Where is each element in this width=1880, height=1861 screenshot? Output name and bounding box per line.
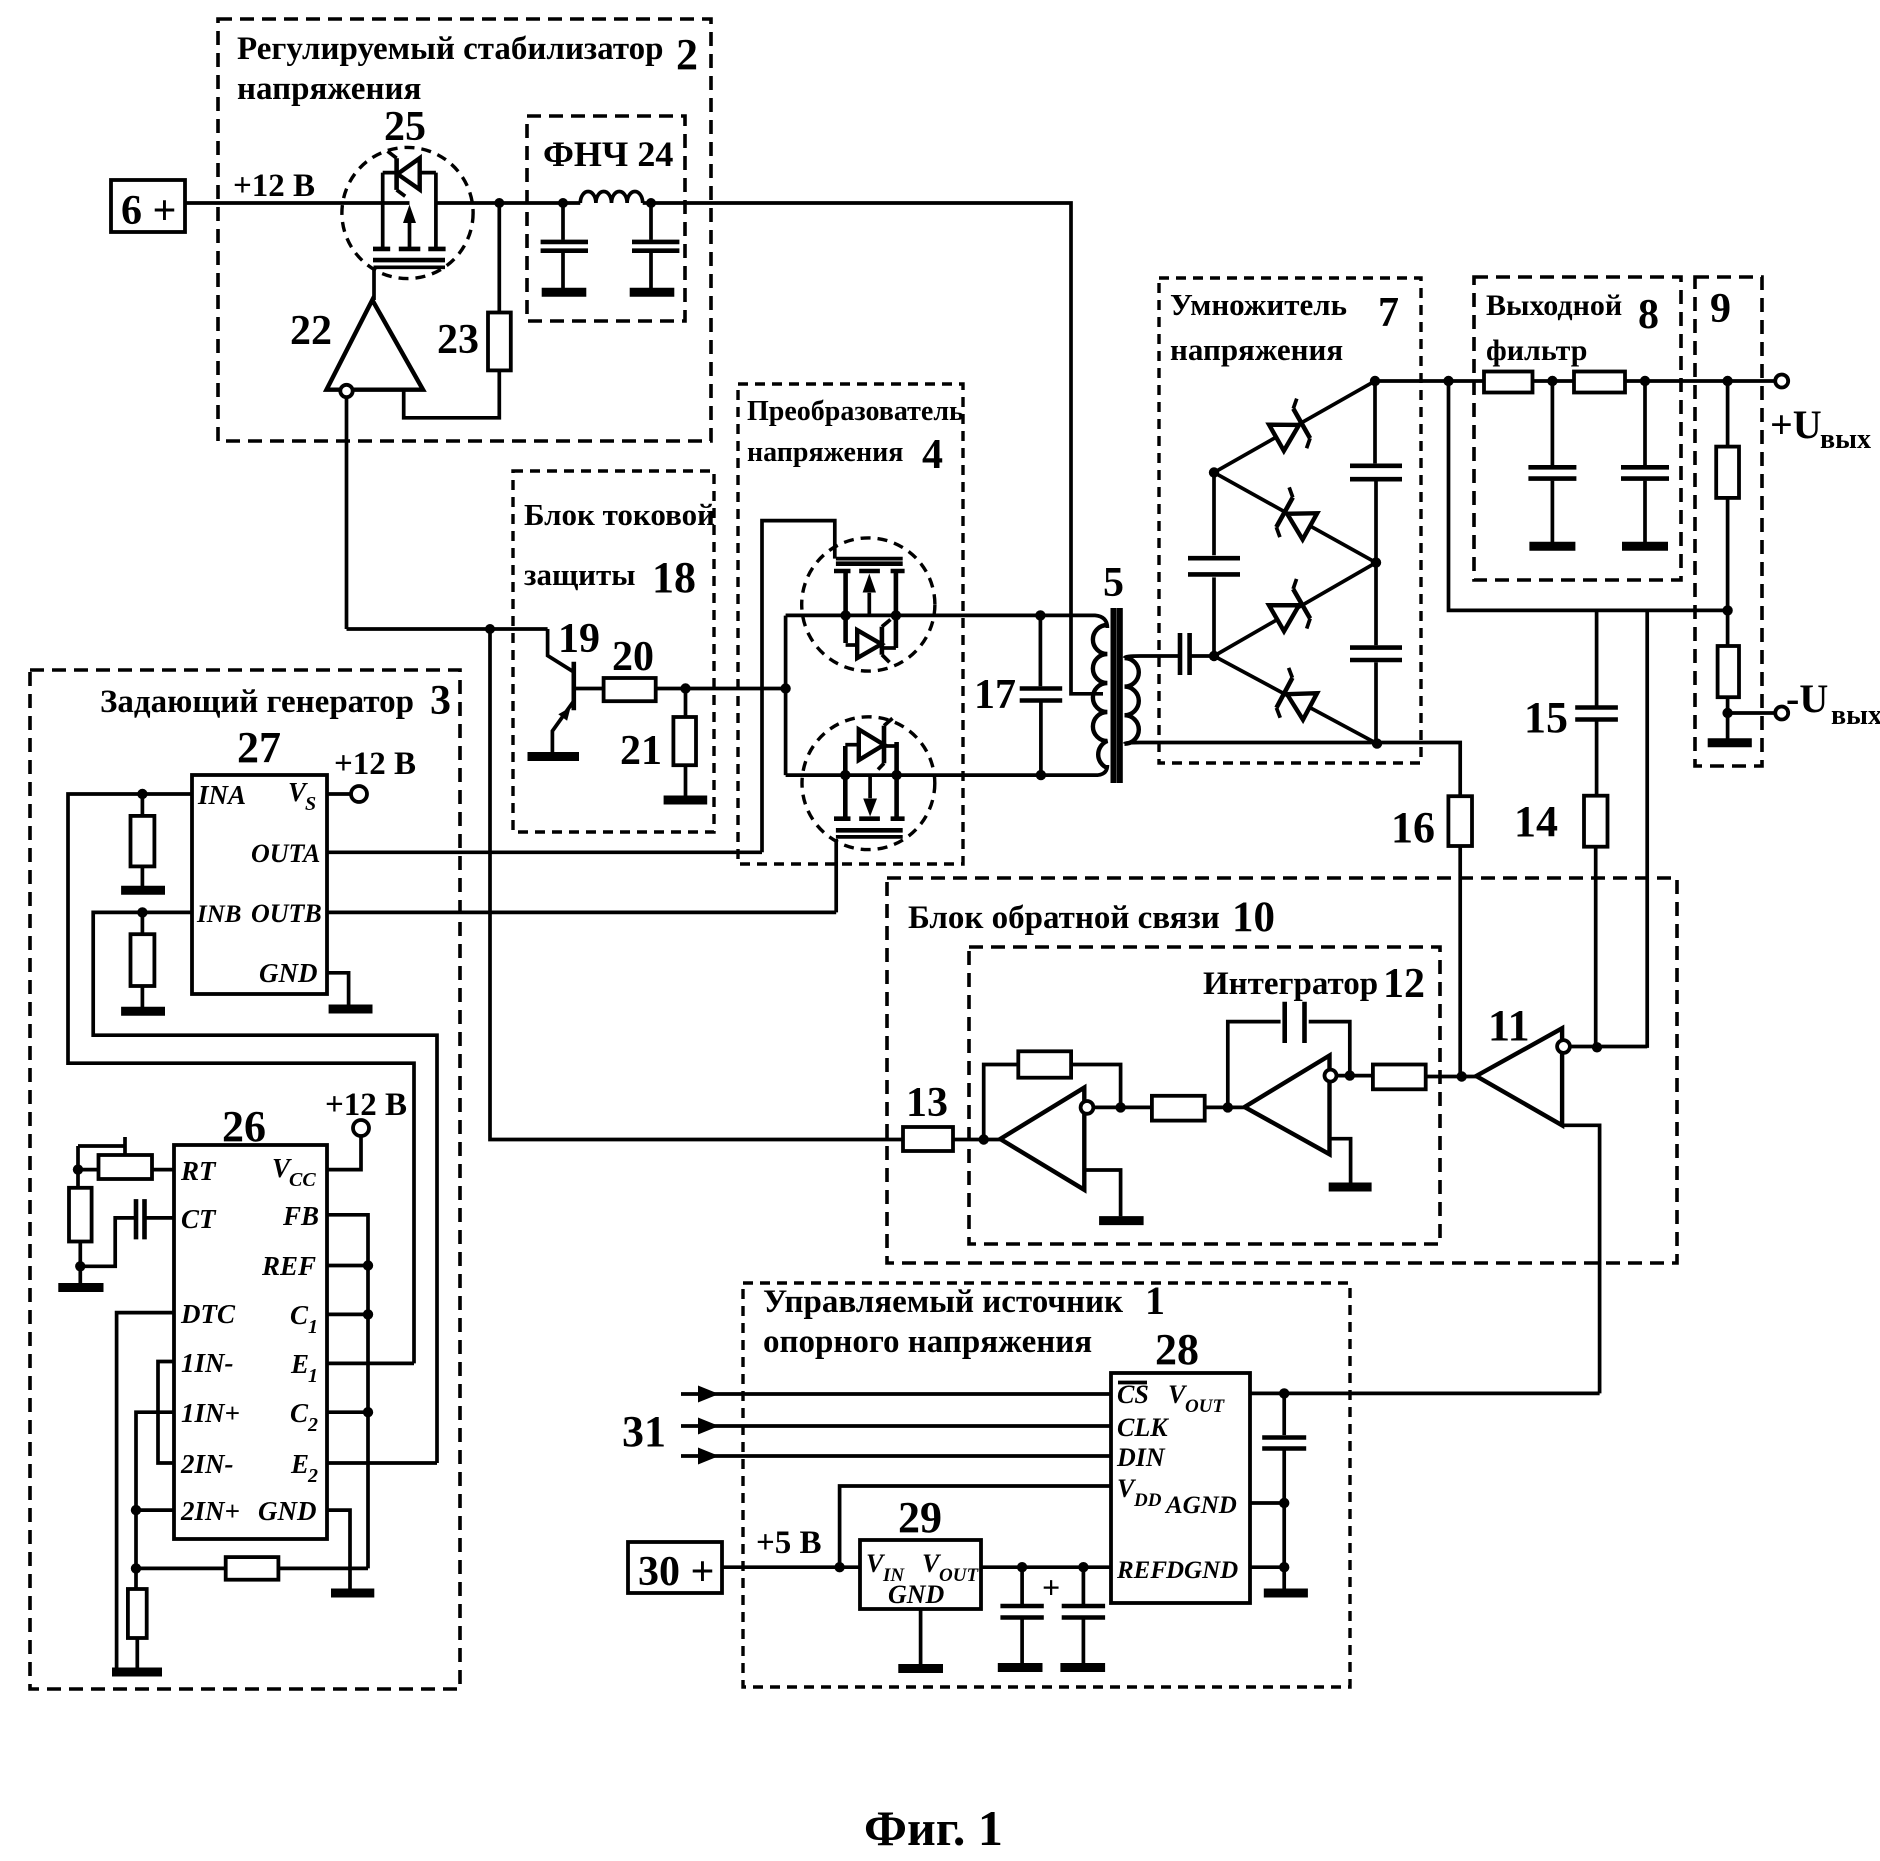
capacitor polarized at REF (998, 1567, 1060, 1667)
svg-text:22: 22 (290, 308, 332, 354)
svg-text:Интегратор: Интегратор (1203, 966, 1378, 1002)
input box 6 (111, 180, 185, 234)
IC 26 (PWM controller) (174, 1102, 327, 1539)
wire node B up to cap (1212, 577, 1216, 656)
block 9: output divider (1695, 277, 1762, 766)
wire DGND (1250, 1565, 1284, 1569)
wire op-amp 11 output right branch up (1645, 610, 1649, 1048)
op-amp 22 (290, 300, 499, 418)
svg-text:Фиг. 1: Фиг. 1 (864, 1800, 1003, 1856)
resistor R8a (1484, 372, 1533, 393)
svg-text:31: 31 (622, 1407, 666, 1456)
transistor 25 (p-MOSFET in dashed circle) (342, 104, 473, 300)
capacitor at VOUT28 (1262, 1393, 1308, 1593)
wire op-amp22 inverting input down to node (345, 397, 349, 629)
svg-text:27: 27 (237, 723, 281, 772)
svg-text:28: 28 (1155, 1325, 1199, 1374)
capacitor 17 (974, 615, 1062, 775)
wire long vertical from node down to feedback resistor 13 (490, 629, 903, 1140)
wire GND of IC26 (327, 1510, 350, 1589)
resistor 21 (620, 689, 707, 801)
svg-text:7: 7 (1378, 290, 1399, 336)
capacitor at REF (1060, 1567, 1105, 1667)
block 2: Регулируемый стабилизатор напряжения (218, 19, 711, 441)
wire E1 to INA net (327, 1362, 414, 1366)
resistor 14 (1514, 796, 1608, 1048)
svg-text:DTC: DTC (180, 1299, 236, 1329)
wire secondary top to series cap (1140, 654, 1178, 658)
svg-text:фильтр: фильтр (1486, 334, 1587, 367)
wire OUTA to upper MOSFET gate (327, 850, 762, 854)
resistor 13 (903, 1080, 984, 1151)
svg-text:14: 14 (1514, 797, 1558, 846)
svg-text:напряжения: напряжения (747, 437, 903, 468)
svg-text:C: C (290, 1398, 309, 1428)
capacitor C8b (1621, 381, 1669, 546)
svg-text:INB: INB (196, 901, 241, 928)
svg-text:5: 5 (1103, 560, 1124, 606)
block 4: Преобразователь напряжения (738, 384, 964, 864)
resistor between op13 and op12 (1152, 1096, 1205, 1121)
wire VDD branch (840, 1486, 1111, 1567)
svg-text:30 +: 30 + (638, 1549, 714, 1595)
wire OUTB to lower MOSFET gate (327, 911, 836, 915)
wire output +U and terminal (1695, 375, 1871, 456)
svg-text:+12 В: +12 В (325, 1087, 407, 1123)
wire secondary bottom to resistor 16 (1140, 743, 1460, 797)
svg-text:GND: GND (259, 958, 318, 988)
svg-text:+12 В: +12 В (233, 168, 315, 204)
svg-text:защиты: защиты (524, 557, 635, 592)
resistor R9b (1718, 646, 1739, 697)
svg-text:2: 2 (676, 30, 698, 79)
resistor horizontal at bottom of block 3 (136, 1557, 368, 1580)
svg-text:CC: CC (289, 1169, 316, 1191)
capacitor C8a (1528, 381, 1576, 546)
svg-text:6 +: 6 + (121, 188, 176, 234)
svg-text:DGND: DGND (1165, 1557, 1238, 1584)
block 3: Задающий генератор (30, 670, 460, 1689)
svg-text:1: 1 (308, 1365, 318, 1387)
wire between R8a R8b and caps (1533, 379, 1575, 383)
ground IC29 (919, 1609, 923, 1664)
resistor feedback of 13 (984, 1051, 1121, 1139)
svg-text:2IN-: 2IN- (180, 1449, 234, 1479)
svg-text:18: 18 (652, 553, 696, 602)
svg-text:16: 16 (1391, 803, 1435, 852)
capacitor at CT (80, 1199, 174, 1266)
resistor at INA (121, 794, 165, 890)
block 12: Интегратор (969, 947, 1440, 1244)
op-amp 12 (1245, 1056, 1373, 1188)
svg-text:INA: INA (197, 780, 246, 810)
svg-text:11: 11 (1488, 1001, 1530, 1050)
svg-text:FB: FB (282, 1201, 319, 1231)
svg-text:Управляемый источник: Управляемый источник (763, 1284, 1123, 1320)
svg-text:REF: REF (1116, 1557, 1167, 1584)
block 1: Управляемый источник опорного напряжения (743, 1278, 1350, 1687)
block 18: Блок токовой защиты (513, 471, 715, 832)
svg-text:2: 2 (307, 1465, 318, 1487)
svg-text:AGND: AGND (1164, 1492, 1237, 1519)
IC 28 (DAC) (1111, 1325, 1250, 1603)
resistor below RT pot (58, 1170, 103, 1288)
low-pass filter 24: capacitor C24a (541, 203, 588, 292)
capacitor C24b (630, 203, 680, 292)
diode D2 (node A to middle node) (1214, 473, 1376, 563)
svg-text:29: 29 (898, 1493, 942, 1542)
transistor VT upper (n-MOSFET in dashed circle) (762, 521, 935, 853)
block 10: Блок обратной связи (887, 878, 1677, 1263)
svg-text:CT: CT (181, 1204, 217, 1234)
svg-text:8: 8 (1638, 292, 1659, 338)
wire +5V from box 30 to IC29 (722, 1565, 860, 1569)
svg-text:DD: DD (1133, 1490, 1162, 1511)
integrator capacitor loop (1228, 1002, 1350, 1108)
transformer 5 (1093, 560, 1140, 783)
svg-text:19: 19 (558, 616, 600, 662)
resistor at INB (121, 912, 165, 1011)
resistor 23 (437, 203, 511, 370)
svg-text:+12 В: +12 В (334, 746, 416, 782)
wire E2 to INB net (327, 1461, 437, 1465)
svg-text:9: 9 (1710, 286, 1731, 332)
capacitor series (secondary to node B) (1180, 633, 1214, 675)
svg-text:RT: RT (180, 1156, 217, 1186)
wire VOUT29 to REF28 (981, 1565, 1111, 1569)
resistor 16 (1391, 796, 1472, 1076)
wire +12V rail from box 6 to MOSFET 25 (185, 201, 383, 205)
wire -U terminal (1728, 676, 1880, 731)
svg-text:C: C (290, 1300, 309, 1330)
svg-text:1: 1 (1145, 1278, 1165, 1323)
transistor VT lower (n-MOSFET in dashed circle) (802, 717, 935, 913)
svg-text:Регулируемый стабилизатор: Регулируемый стабилизатор (237, 31, 663, 67)
svg-text:1IN-: 1IN- (181, 1348, 234, 1378)
capacitor multiplier left (1188, 558, 1240, 574)
svg-text:Блок обратной связи: Блок обратной связи (908, 900, 1220, 936)
wire FB REF C1 C2 chain (327, 1215, 368, 1569)
svg-text:вых: вых (1831, 700, 1880, 731)
ground stub op13 (1084, 1170, 1120, 1216)
multiplier right column with caps (1350, 376, 1402, 749)
svg-text:2: 2 (307, 1414, 318, 1436)
svg-text:4: 4 (922, 432, 943, 478)
svg-text:Умножитель: Умножитель (1170, 287, 1347, 322)
svg-text:ФНЧ 24: ФНЧ 24 (543, 134, 673, 174)
potentiometer at RT (73, 1137, 174, 1179)
svg-text:OUTA: OUTA (251, 839, 320, 868)
svg-text:GND: GND (258, 1496, 317, 1526)
svg-text:+5 В: +5 В (756, 1525, 822, 1561)
svg-text:21: 21 (620, 728, 662, 774)
svg-text:напряжения: напряжения (1170, 332, 1343, 367)
diode D3 (node B to middle node) (1214, 563, 1376, 656)
wire VOUT28 to op-amp 11 input (1250, 1392, 1600, 1396)
wire lower rail to transformer (786, 765, 1108, 775)
svg-text:+: + (1042, 1569, 1060, 1605)
wire cap to node A (1212, 473, 1216, 556)
wire INA net (68, 794, 414, 1363)
svg-text:3: 3 (430, 678, 451, 724)
ground block 9 (1708, 738, 1752, 747)
svg-text:2IN+: 2IN+ (180, 1496, 240, 1526)
svg-text:Блок токовой: Блок токовой (524, 497, 715, 532)
svg-text:OUTB: OUTB (251, 899, 322, 928)
svg-text:OUT: OUT (939, 1565, 979, 1586)
resistor output of integrator (1373, 1065, 1426, 1090)
wire multiplier top node into block 8 (1375, 379, 1484, 383)
wire Vcc to +12V terminal (325, 1087, 407, 1170)
svg-text:напряжения: напряжения (237, 71, 421, 107)
wire jumper 1IN+ 2IN+ chain (136, 1412, 174, 1568)
wire jumper 1IN- to 2IN- (158, 1362, 174, 1464)
wire ФНЧ output to the right and down to transformer tap (651, 203, 1103, 694)
svg-text:10: 10 (1232, 894, 1275, 941)
svg-text:CLK: CLK (1117, 1413, 1169, 1442)
svg-text:OUT: OUT (1185, 1396, 1225, 1417)
svg-text:25: 25 (384, 104, 426, 150)
wire node 629 from op-amp 22 to transistor 19 collector (347, 627, 548, 631)
svg-text:Преобразователь: Преобразователь (747, 396, 964, 427)
resistor R9a (1716, 447, 1739, 498)
svg-text:опорного напряжения: опорного напряжения (763, 1324, 1092, 1360)
wire MOSFET25 drain to node 23 and on to ФНЧ (436, 201, 563, 205)
wire Vs to +12V terminal (327, 746, 416, 802)
svg-text:17: 17 (974, 672, 1016, 718)
svg-text:1: 1 (308, 1316, 318, 1338)
wire INB net (93, 912, 437, 1463)
svg-text:вых: вых (1820, 424, 1871, 455)
svg-text:REF: REF (261, 1251, 316, 1281)
capacitor 15 (1524, 610, 1618, 795)
IC 29 (regulator) (860, 1493, 981, 1609)
wire GND of U27 (327, 973, 349, 1005)
svg-text:E: E (290, 1449, 309, 1479)
svg-text:DIN: DIN (1116, 1443, 1166, 1472)
wire AGND (1250, 1501, 1284, 1505)
wire converter left rail (784, 616, 788, 776)
svg-text:20: 20 (612, 634, 654, 680)
op-amp U27 (driver IC) (192, 723, 327, 994)
input box 30 (628, 1542, 722, 1595)
block 8: Выходной фильтр (1474, 277, 1681, 580)
svg-text:Выходной: Выходной (1486, 289, 1622, 322)
svg-text:E: E (290, 1349, 309, 1379)
block 7: Умножитель напряжения (1159, 278, 1421, 763)
wire upper rail to transformer (786, 615, 1108, 628)
block 24: ФНЧ (low-pass filter) (527, 116, 685, 321)
svg-text:12: 12 (1383, 961, 1425, 1007)
op-amp 11 (1476, 1001, 1647, 1393)
node B (1209, 651, 1219, 661)
svg-text:+U: +U (1770, 402, 1822, 447)
node A (1209, 467, 1219, 477)
svg-text:GND: GND (888, 1580, 945, 1609)
wire op13 output (1093, 1106, 1152, 1110)
diode D4 (node B to bottom node) (1214, 656, 1377, 744)
transistor Q19 (528, 616, 604, 757)
resistor bottom of block 3 (divider to ground) (112, 1568, 162, 1672)
svg-text:23: 23 (437, 317, 479, 363)
svg-text:S: S (305, 793, 316, 815)
inductor L24 (558, 191, 656, 208)
svg-text:Задающий генератор: Задающий генератор (100, 684, 414, 720)
label 31 and input arrows (622, 1386, 1111, 1465)
svg-text:13: 13 (906, 1080, 948, 1126)
resistor 20 (604, 634, 786, 701)
svg-text:15: 15 (1524, 693, 1568, 742)
wire top node down and across to block 9 divider (1449, 381, 1728, 610)
diode D1 (node A to top node) (1214, 381, 1375, 473)
svg-text:-U: -U (1786, 676, 1828, 721)
wire DTC down to ground (117, 1313, 174, 1668)
svg-text:1IN+: 1IN+ (181, 1398, 240, 1428)
op-amp 13 (979, 1088, 1094, 1190)
resistor R8b (1574, 372, 1625, 393)
